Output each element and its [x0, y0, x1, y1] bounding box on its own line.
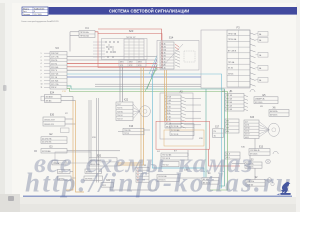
svg-text:МЛ3: МЛ3 — [138, 62, 142, 64]
svg-text:S14: S14 — [169, 36, 174, 40]
relay E20 — [89, 154, 117, 166]
wire orange pair S14 to flasher box — [165, 70, 167, 121]
switch S23 enclosure — [98, 34, 162, 68]
svg-text:724 ЗЧ: 724 ЗЧ — [117, 115, 122, 117]
svg-text:228 Ж: 228 Ж — [51, 87, 57, 89]
svg-text:ПР3 2А: ПР3 2А — [226, 101, 233, 104]
svg-text:6: 6 — [41, 70, 42, 72]
svg-text:http://info-kotlas.ru: http://info-kotlas.ru — [25, 168, 293, 198]
svg-text:219 СПБ: 219 СПБ — [51, 57, 59, 59]
wire orange pair S23 to E20 — [118, 68, 144, 166]
left rows block bottom — [225, 152, 240, 159]
connector X22 — [116, 99, 150, 121]
connector E24 — [41, 91, 76, 103]
svg-text:Е13: Е13 — [259, 147, 264, 149]
wire cyan V3 to right — [67, 74, 222, 188]
watermark line 2 — [25, 168, 293, 198]
svg-text:42 ГБ: 42 ГБ — [245, 125, 249, 127]
lamp S3 — [232, 159, 270, 168]
svg-text:Схема электрооборудования КамА: Схема электрооборудования КамАЗ-65115 — [21, 20, 59, 23]
fuse F4 — [70, 26, 95, 52]
fuse strip K3 — [136, 165, 149, 182]
flasher relay Y1 — [170, 124, 204, 140]
wire grey pair to X20 — [97, 98, 99, 183]
wire blue V3 to F3 box — [67, 76, 201, 78]
svg-text:Х16: Х16 — [129, 125, 134, 128]
svg-text:2: 2 — [41, 56, 42, 58]
svg-text:КамАЗ-65115: КамАЗ-65115 — [34, 7, 44, 10]
connector V3 — [41, 46, 68, 89]
wire grey 1 V3 to S14 — [67, 59, 157, 61]
svg-text:СКАНИР 2А: СКАНИР 2А — [255, 98, 265, 101]
wire red 2 V3 to S14 — [67, 66, 157, 68]
lamp E13 — [241, 139, 278, 156]
svg-text:225 ЗБ: 225 ЗБ — [51, 77, 58, 79]
svg-text:КП2: КП2 — [129, 65, 132, 67]
svg-text:226 ЗЧБ: 226 ЗЧБ — [51, 80, 59, 82]
svg-text:СМ 465.374: СМ 465.374 — [44, 124, 54, 126]
wire grey 3 V3 to S14 — [67, 56, 157, 58]
svg-text:S17: S17 — [215, 126, 220, 128]
svg-text:ФП 134 Б: ФП 134 Б — [255, 101, 263, 104]
lamp block SM — [157, 175, 179, 182]
svg-text:Е30: Е30 — [50, 114, 55, 117]
svg-text:5: 5 — [41, 67, 42, 69]
lamp unit E30 — [43, 113, 76, 133]
svg-text:11: 11 — [41, 87, 43, 89]
switch S4 — [184, 169, 219, 184]
wire green V3 to right — [67, 88, 228, 190]
svg-text:МЛ1: МЛ1 — [120, 62, 124, 64]
svg-text:БМ 465 Б: БМ 465 Б — [270, 115, 278, 117]
svg-text:ПР310 6А: ПР310 6А — [80, 35, 89, 38]
svg-text:45 СЛ: 45 СЛ — [245, 134, 249, 136]
svg-text:722 ГБ: 722 ГБ — [117, 108, 123, 110]
wire cyan branch down to S4 — [153, 74, 205, 178]
svg-text:224 ГЧБ: 224 ГЧБ — [51, 74, 59, 76]
svg-text:484 АБВ: 484 АБВ — [46, 96, 54, 99]
connector X23 — [244, 116, 279, 139]
svg-text:725 СЛ: 725 СЛ — [117, 119, 123, 121]
lamp S2 — [246, 177, 274, 186]
svg-text:ПР5 2А: ПР5 2А — [226, 108, 233, 111]
svg-text:220 ПБ: 220 ПБ — [51, 60, 58, 62]
unit E5 — [254, 94, 278, 108]
left rows block BF — [225, 119, 239, 133]
svg-text:8: 8 — [41, 77, 42, 79]
lamp loads of F3 — [256, 32, 269, 83]
marker lamp left 1 — [58, 169, 71, 173]
enclosure box bottom-left — [55, 152, 91, 163]
connector D1 — [222, 90, 255, 112]
svg-text:222 КЧБ: 222 КЧБ — [51, 67, 59, 69]
wire bottom bus — [110, 150, 267, 190]
svg-text:ПР4 2А: ПР4 2А — [226, 105, 233, 108]
wire A3 outputs — [186, 98, 201, 124]
wire grey pair to E20 — [89, 100, 91, 158]
switch box ECONOM — [85, 169, 102, 173]
svg-text:МЛ2: МЛ2 — [129, 62, 133, 64]
svg-text:9: 9 — [41, 80, 42, 82]
svg-text:Х23: Х23 — [250, 116, 255, 119]
svg-text:44 ЗЧ: 44 ЗЧ — [245, 131, 249, 133]
svg-text:КЛ 4Б: КЛ 4Б — [228, 68, 234, 70]
svg-text:Система: Система — [23, 14, 30, 16]
title bar — [49, 7, 297, 15]
junction label X20 mid — [92, 137, 97, 139]
svg-text:S23: S23 — [129, 29, 134, 33]
svg-text:ПР5 6А: ПР5 6А — [228, 61, 235, 64]
wires S23 left pins — [93, 42, 105, 57]
svg-text:43 ПЧ: 43 ПЧ — [245, 128, 249, 130]
svg-text:Е24: Е24 — [50, 92, 55, 95]
flasher relay enclosure — [156, 121, 210, 149]
svg-text:4: 4 — [41, 63, 42, 65]
svg-text:1: 1 — [41, 53, 42, 55]
svg-text:227 СЛБ: 227 СЛБ — [51, 84, 59, 86]
svg-text:КП1: КП1 — [120, 65, 123, 67]
svg-text:БМ 465 А: БМ 465 А — [270, 110, 278, 113]
svg-text:Лист: Лист — [23, 11, 27, 13]
svg-text:ЗЧ: ЗЧ — [214, 135, 216, 137]
switch S23 terminal boxes — [119, 60, 146, 67]
wire red F4 to S23/S14 — [95, 29, 162, 41]
svg-text:221 КЧ: 221 КЧ — [51, 63, 58, 65]
switch S14 — [157, 36, 199, 70]
wire teal V3 to right — [67, 86, 225, 186]
svg-text:ПР1 2А: ПР1 2А — [226, 94, 233, 97]
svg-text:РС 951 А: РС 951 А — [171, 125, 179, 128]
title block table — [22, 7, 48, 16]
connector X20 — [101, 180, 114, 187]
lamp E2 — [41, 133, 67, 144]
wire red 1 V3 to S14 — [67, 62, 157, 64]
svg-text:РС 951 В: РС 951 В — [171, 134, 179, 136]
svg-text:ПЧ: ПЧ — [214, 131, 216, 133]
svg-text:745 746 747: 745 746 747 — [126, 37, 135, 39]
svg-text:Х22: Х22 — [124, 99, 129, 102]
svg-text:46 Ж: 46 Ж — [245, 137, 249, 139]
svg-text:12.7.2009: 12.7.2009 — [34, 14, 42, 16]
svg-text:ЗМ 4Б: ЗМ 4Б — [228, 73, 234, 75]
wire stubs to marker lamps — [70, 171, 76, 178]
wire grey pair to F3 box — [95, 84, 201, 86]
svg-text:10: 10 — [41, 84, 43, 86]
svg-text:7: 7 — [41, 74, 42, 76]
wire orange pair to bottom-left lamps — [66, 101, 84, 193]
svg-text:РС 951 АБ: РС 951 АБ — [171, 129, 180, 132]
KamAZ logo — [277, 182, 291, 195]
switch S23 contact grid — [102, 29, 148, 60]
svg-text:КП3: КП3 — [138, 65, 141, 67]
switch box NOMER — [84, 176, 103, 180]
subtitle text — [21, 20, 59, 23]
svg-text:223 ГЧ: 223 ГЧ — [51, 70, 58, 72]
relay block A3 — [160, 91, 193, 140]
switch S23 lever contacts — [105, 41, 118, 57]
svg-text:ПР2 2А: ПР2 2А — [226, 98, 233, 101]
svg-text:4: 4 — [34, 11, 35, 13]
watermark line 1 — [34, 148, 254, 178]
scan smudge left edge — [3, 85, 37, 201]
svg-text:726 СЛБ: 726 СЛБ — [124, 130, 132, 132]
svg-text:41 Г: 41 Г — [245, 121, 248, 123]
lamp E3 — [41, 145, 120, 153]
rear lamp unit E7 — [157, 150, 188, 166]
svg-text:727 Ж: 727 Ж — [124, 133, 129, 135]
connector X6 — [269, 107, 289, 117]
svg-text:723 ПЧ: 723 ПЧ — [117, 111, 123, 113]
svg-text:ПР119 6А: ПР119 6А — [228, 32, 237, 35]
svg-text:СМ 465.3747: СМ 465.3747 — [44, 120, 55, 122]
svg-text:485 АБ: 485 АБ — [46, 100, 53, 103]
unit S17 — [213, 126, 224, 137]
svg-text:V3: V3 — [55, 46, 59, 50]
connector X16 — [118, 125, 150, 135]
svg-text:45.3716 ЛБ: 45.3716 ЛБ — [42, 142, 52, 144]
wire grey 2 V3 to S14 — [67, 69, 157, 71]
svg-text:721 Г: 721 Г — [117, 104, 121, 106]
svg-text:ПР310 6А: ПР310 6А — [228, 38, 237, 41]
svg-text:218 ПЧК: 218 ПЧК — [51, 53, 59, 55]
wire teal branch to S4 — [205, 89, 207, 178]
marker lamp left 2 — [58, 176, 72, 180]
svg-text:Модель: Модель — [23, 8, 29, 10]
watermark underline — [23, 195, 292, 197]
wire fan into S14 — [145, 56, 157, 92]
svg-text:СИСТЕМА СВЕТОВОЙ СИГНАЛИЗАЦИИ: СИСТЕМА СВЕТОВОЙ СИГНАЛИЗАЦИИ — [109, 8, 189, 13]
wire grey pair S23 to X22 — [120, 67, 123, 103]
svg-text:ВТ СМ6 В: ВТ СМ6 В — [228, 51, 237, 53]
svg-text:45.3716 ПБ: 45.3716 ПБ — [42, 138, 52, 140]
wire red flasher tail — [209, 149, 240, 166]
svg-text:3: 3 — [41, 60, 42, 62]
marker lamp left 0 — [52, 161, 66, 165]
fuse panel F3 — [201, 26, 256, 88]
svg-text:ПР119 6А: ПР119 6А — [80, 31, 89, 34]
